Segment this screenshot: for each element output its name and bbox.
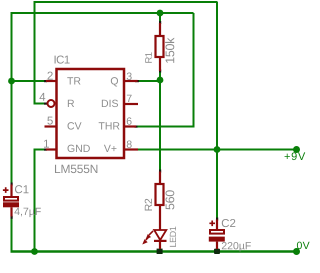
wire bottom ground rail bbox=[11, 250, 297, 252]
resistor R1 body bbox=[156, 36, 164, 57]
node junction GND wire/rail bbox=[31, 248, 38, 255]
node 0V endpoint bbox=[293, 248, 300, 255]
LED1 bottom lead bbox=[159, 242, 161, 249]
resistor R2 value 560 bbox=[165, 190, 174, 209]
capacitor C1 name label bbox=[15, 185, 29, 193]
pin number 1 bbox=[44, 140, 49, 148]
capacitor C2 plus sign bbox=[209, 221, 215, 227]
node junction C2/rail dark bbox=[214, 249, 220, 254]
wire Q pin 3 to node bbox=[139, 80, 162, 82]
pin name CV bbox=[68, 122, 82, 129]
resistor R2 body bbox=[156, 184, 164, 205]
pin number 4 bbox=[39, 93, 45, 101]
wire-pin junction ticks bbox=[11, 21, 219, 221]
pin 5 CV lead bbox=[45, 125, 57, 127]
pin name GND bbox=[68, 145, 90, 152]
wire inner top rail (TR/THR net) bbox=[12, 12, 194, 14]
capacitor C2 name label bbox=[222, 219, 236, 227]
capacitor C2 value 220uF bbox=[222, 242, 251, 252]
capacitor C1 top lead bbox=[10, 185, 12, 197]
wire R1 top stub bbox=[159, 12, 161, 22]
capacitor C2 top plate bbox=[210, 230, 224, 234]
wire Q net vertical R1 bottom to R2 top bbox=[159, 72, 161, 170]
pin name DIS bbox=[102, 100, 118, 107]
wire reset net from top rail to pin 4 bbox=[35, 1, 45, 104]
pin 4 R inversion bubble bbox=[48, 100, 55, 107]
wire C1 bottom to ground rail bbox=[11, 218, 13, 253]
pin 3 Q lead bbox=[125, 80, 138, 82]
node junction V+/C2 bbox=[214, 146, 221, 153]
pin name TR bbox=[67, 77, 80, 84]
pin name Q bbox=[111, 77, 118, 86]
resistor R1 leads bbox=[159, 23, 161, 71]
node junction TR/C1 bbox=[8, 78, 15, 85]
pin name THR bbox=[99, 122, 120, 129]
LED1 cathode bar bbox=[154, 240, 167, 242]
pin number 3 bbox=[127, 72, 132, 79]
pin number 8 bbox=[127, 140, 132, 147]
pin name V+ bbox=[104, 145, 117, 152]
LED1 emission arrows bbox=[143, 231, 153, 244]
pin number 7 bbox=[127, 95, 132, 102]
capacitor C1 top plate bbox=[4, 197, 18, 201]
resistor R2 name label bbox=[145, 199, 152, 211]
LED1 anode triangle bbox=[154, 230, 166, 240]
wire V+ rail to +9V bbox=[138, 149, 297, 151]
node +9V endpoint bbox=[293, 146, 300, 153]
capacitor C2 bottom lead bbox=[216, 242, 218, 249]
resistor R1 name label bbox=[145, 52, 152, 62]
pin number 5 bbox=[47, 117, 52, 125]
capacitor C1 bottom plate bbox=[3, 202, 19, 207]
pin name R bbox=[68, 100, 74, 107]
pin 6 THR lead bbox=[125, 125, 136, 127]
IC1 pin leads bbox=[45, 81, 139, 150]
capacitor C1 bottom lead bbox=[10, 207, 12, 216]
LED1 name label bbox=[170, 227, 176, 247]
pin number 2 bbox=[47, 72, 52, 80]
pin 2 TR lead bbox=[46, 80, 56, 82]
net label +9V bbox=[285, 152, 306, 160]
wire GND pin 1 down to rail bbox=[35, 150, 45, 252]
IC IC1 LM555N timer body bbox=[57, 69, 125, 158]
node junction LED/rail dark bbox=[157, 249, 163, 254]
IC1 value label LM555N bbox=[55, 165, 97, 173]
capacitor C1 value 4,7uF bbox=[14, 208, 40, 217]
IC1 name label bbox=[55, 55, 70, 63]
net label 0V bbox=[297, 242, 310, 249]
wire outer right vertical (V+ loop down to C2) bbox=[216, 2, 218, 219]
capacitor C2 bottom plate bbox=[209, 237, 225, 242]
pin 8 V+ lead bbox=[125, 148, 138, 150]
resistor R1 value 150k bbox=[165, 38, 174, 63]
wire THR horizontal bbox=[137, 126, 195, 128]
pin number 6 bbox=[127, 117, 132, 124]
pin 1 GND lead bbox=[46, 148, 56, 150]
wire inner right vertical to THR bbox=[193, 13, 195, 127]
wire TR pin 2 bbox=[12, 80, 45, 82]
capacitor C2 top lead bbox=[216, 220, 218, 230]
pin 7 DIS lead bbox=[125, 103, 138, 105]
capacitor C1 plus sign bbox=[3, 187, 9, 193]
node junction R1 top bbox=[157, 10, 164, 17]
wire left vertical to C1 top bbox=[11, 12, 13, 184]
wire outer top rail bbox=[35, 1, 218, 3]
node junction Q/R1 bbox=[157, 77, 164, 84]
resistor R2 leads bbox=[159, 172, 161, 231]
